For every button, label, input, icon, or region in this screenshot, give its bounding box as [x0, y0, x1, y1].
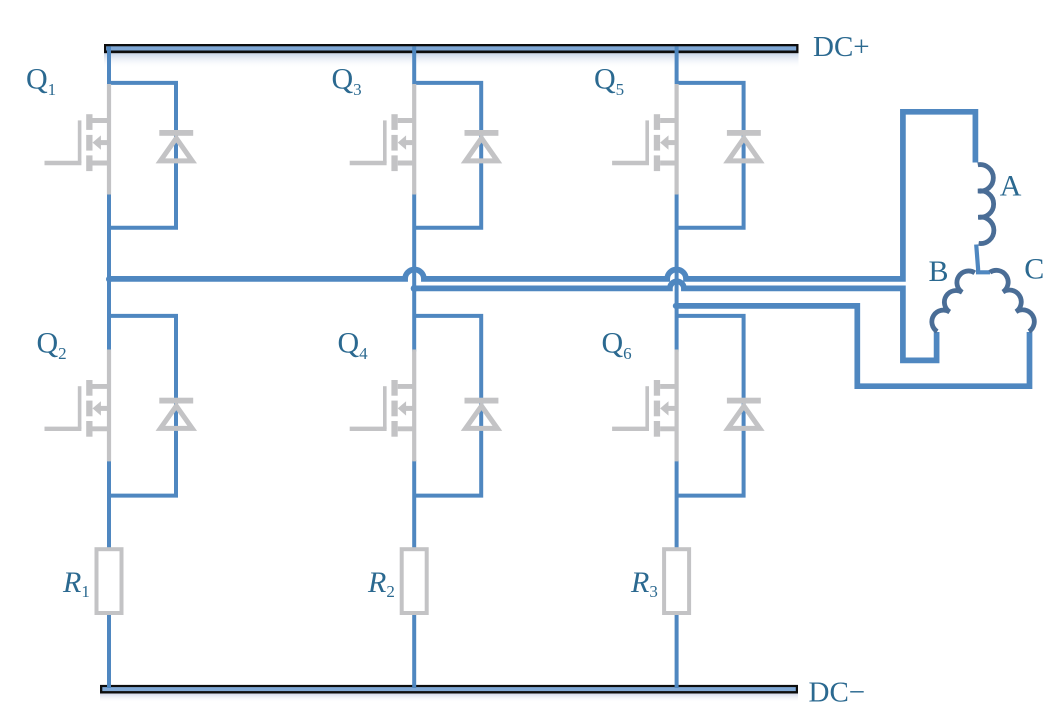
svg-text:Q2: Q2 — [37, 327, 67, 363]
svg-text:R2: R2 — [367, 566, 395, 601]
svg-text:B: B — [929, 255, 949, 288]
svg-text:C: C — [1024, 253, 1044, 286]
svg-text:R1: R1 — [62, 566, 90, 601]
svg-text:Q4: Q4 — [338, 327, 369, 363]
svg-text:A: A — [1000, 170, 1022, 203]
svg-text:Q6: Q6 — [602, 327, 632, 363]
svg-text:R3: R3 — [630, 566, 658, 601]
svg-text:Q1: Q1 — [26, 63, 56, 99]
svg-text:DC+: DC+ — [813, 31, 870, 63]
svg-text:DC−: DC− — [809, 676, 866, 708]
